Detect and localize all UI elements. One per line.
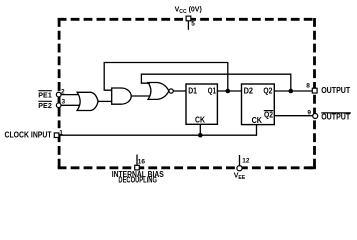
- svg-text:9: 9: [307, 109, 311, 116]
- dashed package boundary box: [58, 18, 316, 169]
- flip-flop FF2 box: [242, 84, 275, 125]
- wire CK stub FF1: [199, 124, 201, 135]
- svg-text:Q1: Q1: [208, 87, 217, 96]
- label PE1 (overlined): [38, 90, 52, 99]
- wire NOR output to D1: [173, 90, 186, 92]
- terminal pin 5 (VCC): [186, 16, 191, 21]
- terminal pin 8 (OUTPUT): [312, 88, 317, 93]
- label OUTPUT-bar (overlined): [321, 113, 351, 122]
- label PE2 (overlined): [38, 101, 52, 110]
- terminal pin 3 (PE2): [56, 103, 61, 108]
- terminal pin 12 (VEE): [237, 166, 242, 171]
- OR gate G1: [77, 92, 98, 110]
- label Q2-bar (overlined): [264, 111, 274, 120]
- svg-text:5: 5: [191, 20, 195, 27]
- svg-text:D2: D2: [244, 87, 254, 96]
- svg-text:DECOUPLING: DECOUPLING: [118, 176, 157, 185]
- svg-text:CLOCK INPUT: CLOCK INPUT: [5, 131, 52, 140]
- wire Q1 to D2: [217, 90, 241, 92]
- NOR gate G3 (OR body): [148, 83, 169, 100]
- svg-text:OUTPUT: OUTPUT: [321, 113, 350, 122]
- svg-text:12: 12: [242, 157, 250, 164]
- wire Q2-bar to output pin 9: [274, 115, 313, 117]
- svg-text:D1: D1: [188, 87, 197, 96]
- svg-text:Q2: Q2: [264, 111, 274, 120]
- wire feedback Q1 to AND input (up, left, down): [104, 63, 228, 92]
- terminal pin 2 (PE1): [56, 92, 61, 97]
- svg-text:CK: CK: [252, 116, 263, 125]
- AND gate G2: [112, 88, 132, 104]
- svg-text:Q2: Q2: [263, 87, 273, 96]
- svg-text:PE2: PE2: [38, 101, 52, 110]
- wire AND output to NOR gate: [131, 95, 150, 97]
- label INTERNAL BIAS DECOUPLING: [112, 170, 164, 185]
- border dash segment between PE1 and PE2 terminals: [58, 98, 61, 103]
- junction dot on Q1-D2 wire: [226, 89, 231, 94]
- svg-text:8: 8: [306, 83, 310, 90]
- terminal pin 9 (OUTPUT-bar): [313, 114, 318, 119]
- wire clock line: [59, 125, 257, 136]
- terminal pin 1 (CLOCK): [54, 133, 59, 138]
- wire VEE stub pin 12: [239, 155, 241, 166]
- svg-text:16: 16: [138, 158, 146, 165]
- NOR gate G3 output bubble: [169, 89, 173, 93]
- wire internal bias stub pin 16: [136, 155, 138, 167]
- wire PE1 to OR gate: [61, 94, 80, 96]
- junction dot on clock line: [198, 133, 203, 138]
- wire PE2 to OR gate: [61, 104, 80, 106]
- svg-text:PE1: PE1: [38, 90, 52, 99]
- wire OR output to AND gate: [98, 100, 112, 102]
- svg-text:3: 3: [62, 99, 66, 106]
- wire VCC stub: [187, 21, 189, 30]
- terminal pin 16 (internal bias): [135, 165, 140, 170]
- wire Q2 to output pin 8: [274, 90, 312, 92]
- wire feedback Q2 to NOR input (up, left, down): [141, 74, 290, 91]
- flip-flop FF1 box: [186, 84, 217, 124]
- svg-text:OUTPUT: OUTPUT: [321, 86, 350, 95]
- svg-text:CK: CK: [195, 115, 205, 124]
- junction dot on Q2-output wire: [289, 89, 294, 94]
